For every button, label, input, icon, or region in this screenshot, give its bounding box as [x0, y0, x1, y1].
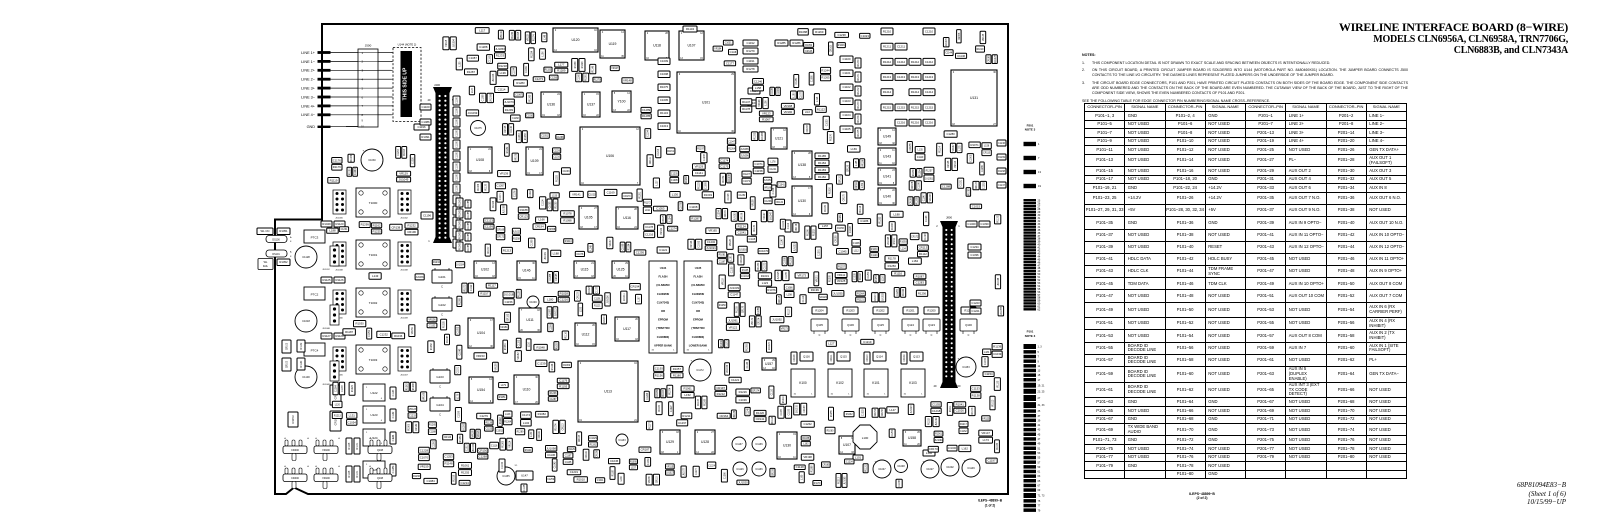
svg-text:R1279: R1279 [746, 49, 755, 53]
svg-text:R1085: R1085 [968, 188, 970, 195]
svg-text:R1215: R1215 [911, 105, 920, 109]
svg-text:R1150: R1150 [349, 168, 351, 175]
svg-text:LINE 3−: LINE 3− [301, 95, 316, 99]
svg-text:R1135: R1135 [486, 183, 488, 190]
svg-text:R1121: R1121 [857, 300, 864, 302]
svg-text:C1285: C1285 [550, 273, 552, 280]
svg-text:R1099: R1099 [556, 201, 558, 208]
svg-text:JU1098: JU1098 [504, 205, 506, 214]
svg-text:CR121: CR121 [839, 175, 841, 183]
svg-text:R1156: R1156 [655, 374, 663, 378]
svg-text:C1169: C1169 [607, 190, 615, 194]
svg-text:CR199: CR199 [586, 450, 588, 458]
svg-text:C: C [819, 334, 821, 337]
svg-text:JU1096: JU1096 [608, 295, 610, 304]
svg-text:C1116: C1116 [491, 446, 498, 448]
svg-text:R1133: R1133 [998, 215, 1000, 222]
svg-text:R1289: R1289 [517, 432, 524, 434]
svg-text:CLN7343): CLN7343) [657, 300, 670, 304]
svg-text:C1218: C1218 [932, 409, 941, 413]
svg-text:JU1025: JU1025 [512, 231, 521, 233]
svg-text:PTC4: PTC4 [311, 349, 319, 353]
svg-text:R1272: R1272 [858, 87, 860, 94]
svg-text:R1176: R1176 [333, 165, 341, 169]
svg-text:U140: U140 [883, 195, 891, 199]
svg-text:U107: U107 [843, 443, 851, 447]
svg-text:U112: U112 [582, 333, 590, 337]
svg-text:R1298: R1298 [998, 171, 1005, 173]
svg-text:U111: U111 [526, 318, 534, 322]
svg-text:C1104: C1104 [773, 187, 775, 194]
svg-text:R1191: R1191 [590, 444, 597, 446]
svg-text:JU1065: JU1065 [741, 149, 750, 151]
svg-text:R1258: R1258 [513, 239, 520, 241]
svg-text:C1228: C1228 [420, 448, 429, 452]
svg-text:C1177: C1177 [726, 61, 734, 65]
svg-text:L158: L158 [755, 86, 762, 90]
svg-text:C1188: C1188 [429, 432, 436, 434]
svg-text:C1224: C1224 [708, 465, 715, 467]
svg-text:G101: G101 [438, 275, 446, 279]
svg-text:CR109: CR109 [904, 354, 906, 362]
svg-text:C1143: C1143 [393, 389, 395, 396]
svg-text:R1039: R1039 [721, 340, 723, 347]
svg-text:C1174: C1174 [522, 413, 530, 417]
svg-text:R1288: R1288 [812, 465, 814, 472]
svg-text:C1287: C1287 [550, 399, 557, 401]
svg-text:R1227: R1227 [743, 174, 750, 176]
svg-text:L196: L196 [500, 71, 507, 75]
svg-text:U146: U146 [522, 269, 530, 273]
svg-text:C1047: C1047 [728, 141, 735, 143]
svg-text:41: 41 [1038, 424, 1041, 427]
svg-text:R1269: R1269 [815, 30, 824, 34]
svg-text:C1112: C1112 [803, 295, 805, 302]
svg-text:C1199: C1199 [485, 225, 493, 229]
svg-text:C1154: C1154 [985, 372, 993, 376]
svg-text:23, 25: 23, 25 [1038, 390, 1046, 393]
svg-text:LINE 4+: LINE 4+ [301, 104, 316, 108]
svg-text:C1143: C1143 [747, 361, 749, 368]
svg-text:R1051: R1051 [279, 229, 288, 233]
svg-text:C1154: C1154 [369, 330, 371, 337]
svg-text:C1095: C1095 [671, 180, 678, 182]
svg-text:R1255: R1255 [831, 410, 833, 417]
svg-text:VR123: VR123 [762, 111, 771, 115]
svg-text:59: 59 [1038, 466, 1041, 469]
svg-text:VR151: VR151 [500, 327, 508, 329]
svg-text:U130: U130 [798, 199, 806, 203]
svg-text:R1151: R1151 [667, 151, 674, 153]
svg-text:C1177: C1177 [596, 286, 598, 293]
svg-text:R1033: R1033 [871, 249, 878, 251]
svg-text:C1231: C1231 [570, 470, 579, 474]
svg-text:C1216: C1216 [925, 121, 934, 125]
svg-text:R1275: R1275 [858, 129, 860, 136]
svg-text:L123: L123 [762, 281, 769, 285]
svg-text:R1232: R1232 [846, 414, 853, 416]
svg-text:C1102: C1102 [842, 85, 850, 89]
svg-text:R1049: R1049 [322, 222, 331, 226]
svg-text:R1160: R1160 [659, 404, 661, 411]
svg-text:R1077: R1077 [488, 246, 490, 253]
svg-text:R1071: R1071 [970, 143, 979, 147]
svg-text:R1123: R1123 [698, 182, 700, 189]
svg-text:C1264: C1264 [336, 384, 338, 391]
svg-text:C1176: C1176 [333, 158, 341, 162]
svg-text:CR170: CR170 [929, 447, 938, 451]
svg-text:U154: U154 [477, 388, 485, 392]
svg-text:R1116: R1116 [565, 331, 567, 338]
svg-text:R1082: R1082 [538, 412, 547, 416]
svg-text:VR111: VR111 [837, 273, 846, 277]
svg-text:K102: K102 [836, 381, 844, 385]
svg-text:CR128: CR128 [505, 125, 507, 133]
svg-text:U130: U130 [783, 444, 791, 448]
svg-text:R1153: R1153 [291, 415, 295, 423]
svg-text:L134: L134 [901, 248, 907, 250]
svg-text:C1036: C1036 [739, 398, 748, 402]
svg-text:R1028: R1028 [560, 292, 569, 296]
svg-text:C1262: C1262 [803, 422, 812, 426]
svg-text:+: + [958, 357, 960, 361]
svg-text:R1065: R1065 [460, 231, 462, 238]
svg-text:R1061: R1061 [683, 387, 692, 391]
svg-text:C1287: C1287 [897, 288, 899, 295]
svg-text:C1297: C1297 [678, 421, 687, 425]
svg-text:C1330: C1330 [980, 222, 989, 226]
svg-text:C1241: C1241 [770, 169, 777, 171]
svg-text:Q124: Q124 [907, 323, 914, 327]
svg-text:C1146: C1146 [957, 54, 965, 58]
svg-text:C1155: C1155 [786, 271, 788, 278]
svg-text:CR170: CR170 [623, 196, 631, 198]
svg-text:L180: L180 [547, 298, 554, 302]
svg-text:R1285: R1285 [642, 114, 651, 118]
svg-text:CR191: CR191 [856, 181, 858, 189]
svg-text:C1179: C1179 [559, 379, 567, 383]
svg-text:VR159: VR159 [412, 327, 414, 335]
svg-text:C1103: C1103 [842, 99, 850, 103]
svg-text:C1172: C1172 [696, 369, 704, 372]
svg-text:R1061: R1061 [461, 464, 470, 468]
svg-text:L192: L192 [645, 210, 651, 212]
svg-text:C1053: C1053 [826, 119, 828, 126]
svg-text:R1287: R1287 [691, 217, 700, 221]
svg-text:C1273: C1273 [535, 77, 544, 81]
svg-text:CR181: CR181 [725, 209, 727, 217]
svg-text:7: 7 [1038, 356, 1040, 359]
svg-text:JU1038: JU1038 [729, 174, 731, 183]
svg-text:17: 17 [1038, 379, 1041, 382]
svg-text:JU1092: JU1092 [882, 293, 884, 302]
svg-text:T1002: T1002 [369, 301, 378, 305]
svg-text:U118: U118 [653, 44, 661, 48]
svg-text:LINE 1+: LINE 1+ [301, 51, 316, 55]
svg-text:Q100: Q100 [965, 323, 972, 327]
svg-text:C1048: C1048 [897, 465, 905, 468]
svg-text:R1140: R1140 [301, 360, 303, 367]
svg-text:79: 79 [1038, 509, 1041, 512]
svg-text:R1127: R1127 [322, 334, 330, 338]
svg-text:R1287: R1287 [467, 70, 476, 74]
svg-text:U104: U104 [477, 331, 485, 335]
svg-text:U135: U135 [695, 266, 702, 270]
svg-text:R1200: R1200 [927, 309, 936, 313]
svg-text:T1000: T1000 [369, 201, 378, 205]
svg-text:C1054: C1054 [348, 420, 357, 424]
svg-text:C1092: C1092 [699, 240, 701, 247]
svg-text:R1013: R1013 [992, 399, 994, 406]
svg-text:JU1023: JU1023 [911, 405, 913, 414]
svg-text:L117: L117 [479, 29, 485, 33]
svg-text:JU1029: JU1029 [936, 417, 938, 426]
svg-text:U158: U158 [908, 436, 916, 440]
svg-text:CR165: CR165 [989, 55, 991, 63]
svg-text:R1133: R1133 [698, 398, 700, 405]
svg-text:C1280: C1280 [982, 164, 984, 171]
svg-text:C1097: C1097 [530, 190, 532, 197]
svg-text:L173: L173 [983, 438, 990, 442]
svg-text:CR111: CR111 [831, 354, 833, 362]
svg-text:R1049: R1049 [704, 193, 713, 197]
svg-text:C1002: C1002 [946, 466, 954, 469]
svg-text:VR186: VR186 [742, 212, 744, 220]
svg-text:(1 of 2): (1 of 2) [985, 504, 995, 508]
svg-text:C1114: C1114 [543, 199, 545, 206]
svg-text:R1138: R1138 [972, 394, 980, 398]
svg-text:C1174: C1174 [720, 158, 728, 162]
svg-text:VR141: VR141 [572, 193, 581, 197]
svg-text:R1250: R1250 [888, 264, 897, 268]
svg-text:C1186: C1186 [899, 479, 901, 486]
svg-text:R1081: R1081 [719, 255, 726, 257]
svg-text:U107: U107 [687, 44, 695, 48]
svg-text:JU1016: JU1016 [739, 249, 748, 251]
svg-text:CR183: CR183 [807, 124, 809, 132]
svg-text:T1001: T1001 [369, 253, 378, 257]
svg-text:C1196: C1196 [417, 125, 425, 129]
svg-text:L149: L149 [590, 244, 592, 250]
svg-text:VR129: VR129 [820, 297, 828, 299]
svg-text:WL: WL [264, 261, 268, 264]
svg-text:C1056: C1056 [758, 307, 760, 314]
svg-text:C1191: C1191 [746, 59, 754, 63]
svg-text:C1253: C1253 [444, 455, 453, 459]
svg-text:C1336: C1336 [970, 253, 979, 257]
svg-text:C1220: C1220 [413, 156, 415, 163]
svg-text:R1233: R1233 [496, 54, 505, 58]
svg-text:C1077: C1077 [800, 91, 802, 98]
svg-text:L143: L143 [372, 274, 379, 278]
svg-text:R1061: R1061 [505, 343, 507, 350]
svg-text:C1062: C1062 [778, 87, 780, 94]
svg-text:CR168: CR168 [910, 197, 912, 205]
svg-text:C1283: C1283 [916, 281, 925, 285]
svg-text:R1162: R1162 [373, 223, 381, 227]
svg-text:JU1053: JU1053 [794, 243, 796, 252]
svg-text:JU1096: JU1096 [490, 93, 492, 102]
svg-text:R1216: R1216 [911, 121, 920, 125]
svg-text:C1062: C1062 [970, 154, 972, 161]
svg-text:R1184: R1184 [628, 243, 630, 250]
svg-text:VR159: VR159 [420, 465, 429, 469]
svg-text:+: + [618, 434, 620, 438]
svg-text:JU1079: JU1079 [504, 100, 514, 104]
svg-text:C1298: C1298 [483, 94, 485, 101]
svg-text:R1065: R1065 [460, 242, 462, 249]
svg-text:C1034: C1034 [985, 358, 987, 365]
svg-text:R1052: R1052 [279, 260, 288, 264]
svg-text:L120: L120 [335, 404, 341, 406]
svg-text:R1260: R1260 [503, 440, 505, 447]
svg-text:C1086: C1086 [421, 120, 430, 124]
svg-text:C1137: C1137 [735, 443, 743, 446]
svg-text:FLASH: FLASH [694, 275, 703, 279]
svg-text:C1153: C1153 [962, 366, 970, 369]
svg-text:C1080: C1080 [812, 75, 814, 82]
svg-text:R1129: R1129 [568, 449, 575, 451]
svg-text:R1232: R1232 [407, 223, 416, 227]
svg-text:R1278: R1278 [746, 67, 755, 71]
svg-text:U136: U136 [547, 103, 555, 107]
svg-text:C1033: C1033 [563, 171, 570, 173]
svg-text:R1224: R1224 [352, 385, 354, 392]
svg-text:13: 13 [1038, 370, 1041, 373]
svg-text:R1274: R1274 [858, 115, 860, 122]
svg-text:JU1096: JU1096 [741, 155, 750, 157]
svg-text:C1180: C1180 [457, 162, 459, 169]
svg-text:JU1051: JU1051 [925, 178, 934, 180]
svg-text:C1247: C1247 [924, 194, 926, 201]
svg-text:DS101: DS101 [272, 253, 280, 256]
svg-text:R1018: R1018 [454, 474, 456, 481]
svg-text:CR164: CR164 [719, 414, 728, 418]
svg-text:VR124: VR124 [759, 99, 761, 107]
svg-text:C1126: C1126 [926, 215, 928, 222]
svg-text:U120: U120 [571, 38, 579, 42]
svg-text:R1067: R1067 [762, 117, 771, 121]
svg-text:R1219: R1219 [783, 396, 785, 403]
svg-text:JU1018: JU1018 [504, 293, 514, 297]
svg-text:C1142: C1142 [393, 411, 395, 418]
svg-text:VR138: VR138 [983, 33, 985, 41]
svg-text:CR138: CR138 [392, 225, 401, 229]
svg-text:C1068: C1068 [623, 243, 625, 250]
svg-text:R1031: R1031 [761, 274, 770, 278]
svg-text:C1026: C1026 [956, 409, 965, 413]
svg-text:R1153: R1153 [545, 70, 552, 72]
svg-text:CR110: CR110 [867, 354, 869, 362]
svg-text:39: 39 [1038, 419, 1041, 422]
svg-text:C1221: C1221 [731, 378, 740, 382]
svg-text:+: + [529, 296, 531, 300]
svg-text:R1051: R1051 [499, 397, 506, 399]
svg-text:L143: L143 [505, 414, 511, 416]
svg-text:R1041: R1041 [956, 402, 965, 406]
svg-text:65: 65 [1038, 480, 1041, 483]
svg-text:R1093: R1093 [404, 148, 406, 155]
svg-text:R1089: R1089 [459, 297, 461, 304]
svg-text:+: + [875, 460, 877, 464]
svg-text:C1191: C1191 [594, 298, 601, 300]
svg-text:R1082: R1082 [431, 343, 433, 350]
svg-text:C1141: C1141 [695, 171, 703, 175]
svg-text:U115: U115 [581, 268, 589, 272]
svg-text:L184: L184 [912, 259, 919, 263]
svg-text:R1083: R1083 [525, 133, 527, 140]
svg-text:C1180: C1180 [457, 151, 459, 158]
svg-text:R1087: R1087 [556, 342, 558, 349]
svg-text:C1123: C1123 [485, 219, 493, 223]
svg-text:R1218: R1218 [499, 64, 508, 68]
svg-text:L180: L180 [793, 92, 795, 98]
svg-text:JU1063: JU1063 [734, 212, 736, 221]
svg-text:C1296: C1296 [853, 243, 860, 245]
svg-text:VR195: VR195 [472, 430, 474, 438]
svg-text:R1269: R1269 [840, 214, 842, 221]
svg-text:C1075: C1075 [474, 127, 482, 130]
svg-text:C1239: C1239 [537, 361, 546, 365]
svg-text:C1071: C1071 [754, 162, 763, 166]
svg-text:L156: L156 [984, 146, 990, 148]
svg-text:L156: L156 [765, 100, 767, 106]
svg-text:JU1050: JU1050 [764, 180, 773, 182]
svg-text:C1130: C1130 [302, 375, 310, 379]
svg-text:R1214: R1214 [911, 90, 920, 94]
svg-text:JU1077: JU1077 [684, 467, 686, 476]
svg-text:L157: L157 [822, 224, 829, 228]
svg-text:L116: L116 [529, 341, 531, 347]
svg-text:CR199: CR199 [539, 430, 541, 438]
svg-text:R1035: R1035 [802, 438, 809, 440]
svg-text:R1265: R1265 [529, 94, 531, 101]
svg-text:R1296: R1296 [582, 61, 584, 68]
svg-text:C1195: C1195 [772, 87, 774, 94]
svg-text:C1197: C1197 [987, 459, 995, 463]
svg-text:R1238: R1238 [550, 393, 557, 395]
svg-text:CR111: CR111 [650, 156, 652, 164]
svg-text:L100: L100 [862, 436, 869, 440]
svg-text:VR179: VR179 [752, 317, 754, 325]
svg-text:JU1068: JU1068 [762, 132, 764, 141]
svg-text:C1158: C1158 [755, 169, 763, 173]
svg-text:C1210: C1210 [553, 157, 560, 159]
svg-text:VR158: VR158 [753, 199, 755, 207]
svg-text:19, 21: 19, 21 [1038, 384, 1046, 387]
svg-text:CR115: CR115 [656, 475, 658, 483]
svg-text:C1212: C1212 [897, 60, 906, 64]
svg-text:VR123: VR123 [409, 409, 417, 411]
svg-text:L162: L162 [962, 447, 969, 451]
svg-text:C1246: C1246 [754, 79, 763, 83]
svg-text:R1056: R1056 [837, 228, 844, 230]
svg-text:L157: L157 [631, 467, 637, 469]
svg-text:C1100: C1100 [842, 57, 850, 61]
svg-text:L135: L135 [918, 150, 924, 152]
svg-text:C1289: C1289 [642, 108, 651, 112]
svg-text:CR156: CR156 [597, 450, 599, 458]
svg-text:C1244: C1244 [355, 168, 357, 175]
svg-text:C1023: C1023 [861, 34, 870, 38]
svg-text:C1280: C1280 [946, 132, 955, 136]
svg-text:5: 5 [1038, 351, 1040, 354]
svg-text:R1135: R1135 [997, 380, 999, 387]
svg-text:C1008: C1008 [660, 72, 669, 76]
svg-text:R1281: R1281 [586, 73, 588, 80]
svg-text:CR194: CR194 [535, 225, 544, 229]
svg-text:R1134: R1134 [686, 27, 694, 31]
